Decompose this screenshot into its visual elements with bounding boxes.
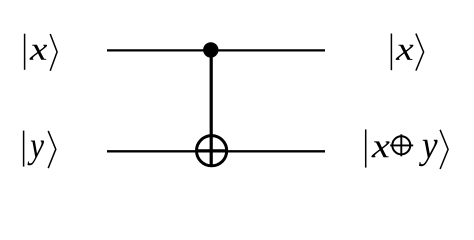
CNOT target circle (XOR) on bottom wire — [197, 136, 227, 166]
control dot on top wire — [203, 42, 218, 57]
node label: input ket |y> bottom left — [24, 131, 56, 169]
node label: output ket |x> top right — [391, 34, 423, 71]
wire: bottom qubit line — [107, 150, 325, 152]
wire: top qubit line — [107, 49, 325, 51]
xor (circled plus) symbol in label — [390, 134, 413, 156]
wire: vertical control-to-target connector — [210, 50, 213, 166]
node label: input ket |x> top left — [25, 34, 58, 71]
node label: output ket |x XOR y> bottom right — [366, 129, 448, 169]
CNOT target horizontal cross-bar — [197, 149, 227, 152]
